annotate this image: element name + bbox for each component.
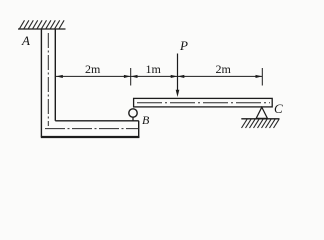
member A-corner right edge (wire) (54, 29, 56, 121)
ceiling hatching (20, 20, 65, 28)
roller support triangle at C (256, 107, 267, 118)
ground line at C (241, 118, 279, 120)
arm centerline horizontal (dash-dot) (45, 128, 139, 130)
dimension tick at C (261, 68, 263, 86)
svg-text:C: C (274, 101, 283, 116)
pin circle B (129, 109, 137, 117)
dimension line (56, 75, 262, 77)
dim arrow right end (points right) (256, 75, 263, 78)
dimension tick at B (130, 68, 132, 86)
arm bottom edge (wire) (41, 136, 140, 138)
svg-text:P: P (179, 38, 188, 53)
svg-text:B: B (142, 113, 150, 127)
svg-text:1m: 1m (146, 62, 162, 76)
force P arrowhead (176, 90, 180, 97)
ground hatching at C (242, 119, 280, 128)
svg-text:2m: 2m (216, 62, 232, 76)
beam BC outline (134, 98, 273, 107)
dim arrow right of first 2m (points right) (124, 75, 131, 78)
svg-text:2m: 2m (85, 62, 101, 76)
fixed ceiling support line at A (18, 28, 66, 30)
dim arrow left end (points left) (56, 75, 63, 78)
beam centerline (dash-dot) (137, 102, 270, 104)
force P line (177, 54, 179, 92)
arm top edge (wire) (55, 120, 139, 122)
pin stem at B (132, 117, 134, 122)
member centerline vertical (dash-dot) (47, 33, 49, 126)
dim arrow left of last 2m (points left) (178, 75, 185, 78)
dim arrow left of 1m (points left) (131, 75, 138, 78)
arm right end edge (138, 121, 140, 138)
dim arrow right of 1m (points right) (171, 75, 178, 78)
member A-corner left edge (wire) (40, 29, 42, 137)
svg-text:A: A (21, 33, 30, 48)
